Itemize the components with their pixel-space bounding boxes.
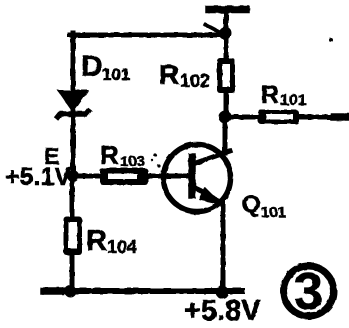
svg-text:+5.1V: +5.1V (5, 163, 71, 191)
svg-text:R: R (159, 59, 179, 90)
svg-text:101: 101 (102, 65, 130, 84)
svg-text:104: 104 (107, 237, 137, 257)
svg-text:R: R (100, 140, 119, 170)
svg-text:+5.8V: +5.8V (184, 295, 261, 327)
svg-text:Q: Q (242, 191, 261, 218)
svg-text:101: 101 (280, 92, 307, 109)
svg-text:102: 102 (180, 71, 210, 91)
svg-text:R: R (86, 225, 107, 257)
svg-text:101: 101 (261, 204, 286, 221)
svg-text:103: 103 (120, 153, 145, 170)
svg-text:3: 3 (294, 263, 323, 321)
svg-text:R: R (261, 81, 279, 109)
svg-text:D: D (81, 50, 103, 83)
